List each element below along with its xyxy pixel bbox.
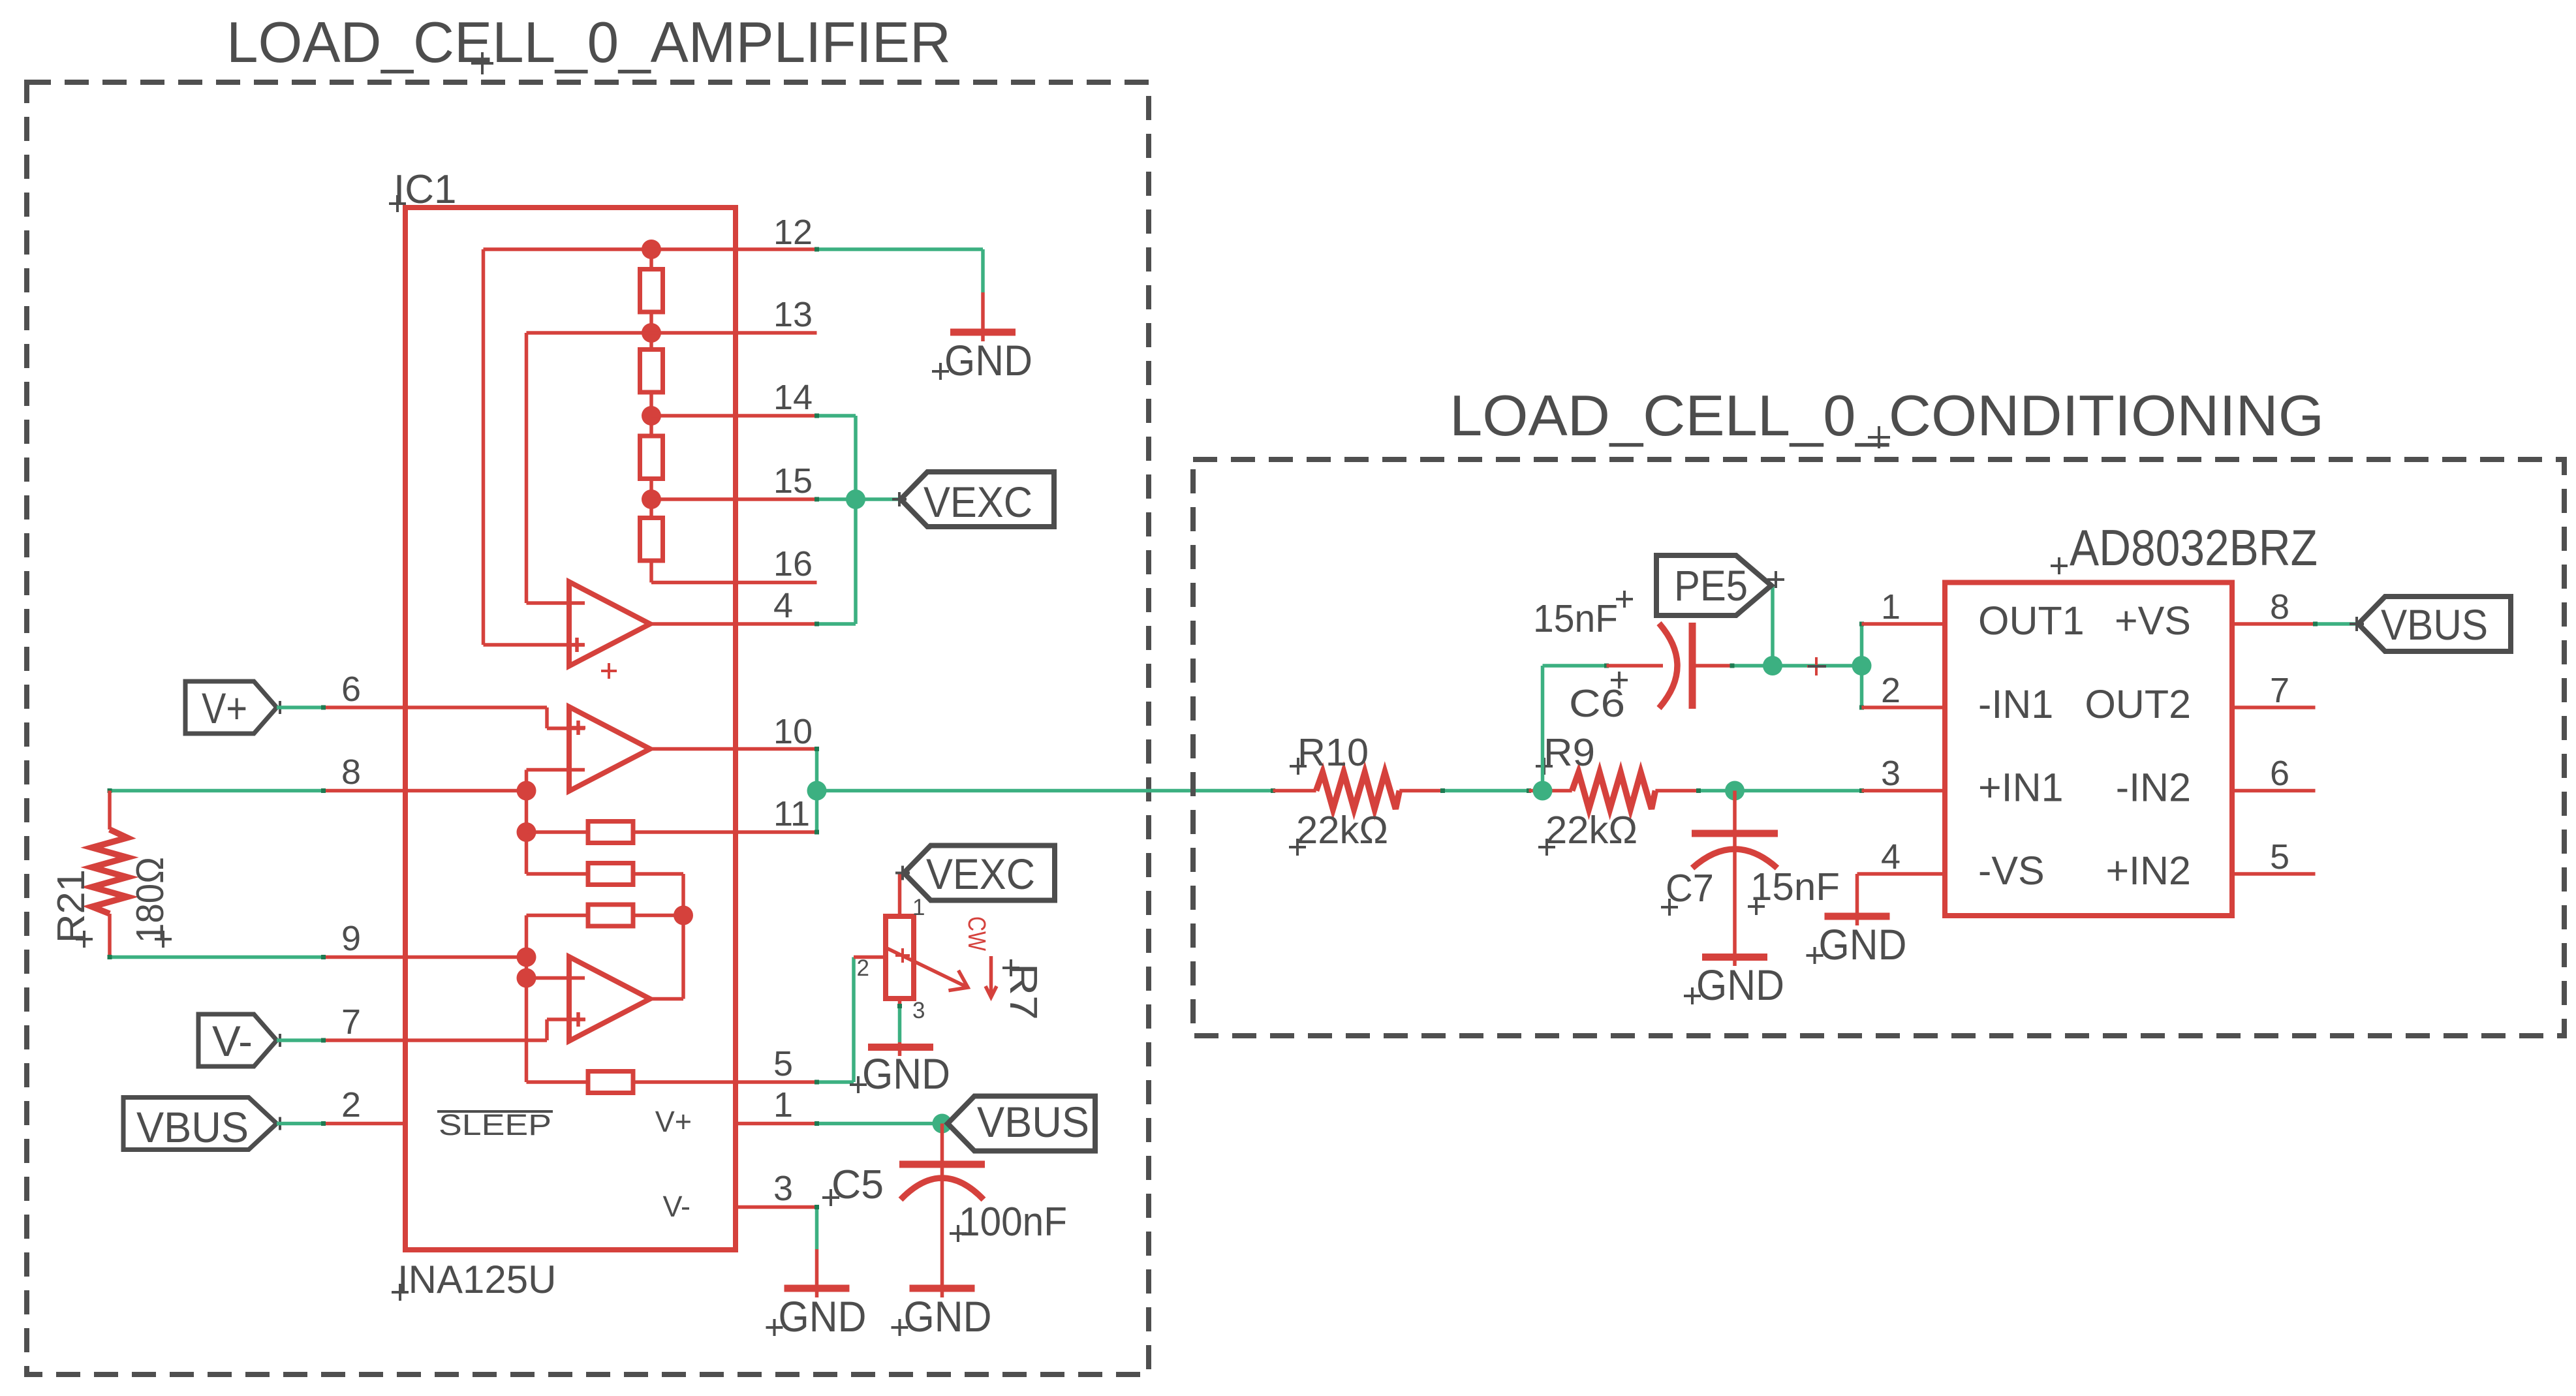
svg-text:AD8032BRZ: AD8032BRZ — [2070, 519, 2318, 576]
resistor R9 22k — [1529, 789, 1572, 793]
pin 12 (IC1) — [484, 247, 817, 251]
svg-text:+IN2: +IN2 — [2105, 848, 2191, 893]
flag V+ — [185, 681, 277, 734]
pin 8 (IC1) — [324, 789, 527, 793]
svg-text:IC1: IC1 — [394, 167, 456, 212]
junction node pin1/pin2 — [1852, 656, 1872, 675]
svg-text:OUT1: OUT1 — [1978, 598, 2085, 643]
wire C6 to PE5/pin1 node — [1732, 664, 1862, 668]
wire R10 to R9 — [1443, 789, 1529, 793]
ground GND (pin 3 net) — [815, 1249, 819, 1288]
svg-text:6: 6 — [2270, 754, 2289, 793]
pin 10 (IC1) — [650, 747, 817, 751]
pin 4 (IC1) — [650, 622, 817, 626]
resistor R21 180R — [108, 791, 112, 830]
svg-text:C6: C6 — [1569, 682, 1625, 725]
ground GND (C5) — [910, 1285, 975, 1292]
svg-text:-IN2: -IN2 — [2116, 766, 2191, 810]
svg-text:C5: C5 — [831, 1162, 884, 1207]
svg-text:R10: R10 — [1297, 731, 1369, 774]
svg-text:GND: GND — [1819, 920, 1907, 969]
svg-text:PE5: PE5 — [1674, 561, 1748, 610]
pin 2 (AD8032) — [1862, 706, 1946, 709]
junction node PE5 — [1763, 656, 1782, 675]
svg-text:7: 7 — [341, 1002, 361, 1042]
pin 3 (AD8032) — [1862, 789, 1946, 793]
pin 8 (AD8032) — [2232, 622, 2316, 626]
flag PE5 — [1771, 585, 1775, 666]
trimmer R7 — [854, 955, 886, 959]
frame LOAD_CELL_0_AMPLIFIER dashed border — [27, 82, 1149, 1374]
svg-text:C7: C7 — [1666, 867, 1714, 910]
junction node VBUS/C5 — [933, 1114, 952, 1134]
svg-text:V-: V- — [212, 1017, 253, 1065]
svg-text:+IN1: +IN1 — [1978, 766, 2064, 810]
svg-text:GND: GND — [862, 1049, 950, 1098]
svg-text:OUT2: OUT2 — [2085, 682, 2191, 726]
svg-text:4: 4 — [1881, 837, 1901, 876]
junction dots on chain — [642, 240, 661, 259]
wire R9 to +IN1 / C7 node — [1699, 789, 1862, 793]
svg-text:11: 11 — [773, 794, 810, 833]
svg-text:VEXC: VEXC — [926, 850, 1035, 898]
ground GND (R7) — [898, 1042, 902, 1047]
wire V+ flag to pin6 — [277, 706, 324, 709]
svg-text:GND: GND — [779, 1292, 867, 1341]
resistor chain R_b (internal, pins 13-14) — [640, 350, 663, 393]
resistor internal feedback R1 row / pin 11 — [527, 830, 589, 834]
pin 6 (IC1) — [324, 706, 406, 709]
junction node C7 — [1725, 781, 1745, 801]
resistor chain R_a (internal, pins 12-13) — [649, 249, 653, 270]
svg-text:4: 4 — [773, 586, 793, 625]
flag VBUS (right) — [2359, 597, 2511, 651]
resistor internal R4 / pin 5 — [527, 1080, 589, 1084]
wire pin5 to R7 wiper — [817, 1080, 854, 1084]
wire pin7 to op3 + input — [405, 1038, 547, 1042]
svg-text:V+: V+ — [202, 684, 247, 732]
svg-text:V-: V- — [662, 1190, 691, 1223]
svg-text:V+: V+ — [655, 1105, 692, 1138]
junction node R10/R9 — [1533, 781, 1553, 801]
wire R7 pin3 to GND — [898, 1006, 902, 1043]
svg-text:VEXC: VEXC — [923, 478, 1032, 526]
op-amp U1 AD8032BRZ body — [1945, 583, 2232, 916]
pin 4 (AD8032) — [1857, 872, 1946, 876]
resistor chain R_d (internal, pins 15-16) — [640, 518, 663, 561]
resistor chain R_c (internal, pins 14-15) — [640, 436, 663, 479]
svg-text:22kΩ: 22kΩ — [1545, 809, 1637, 852]
svg-text:1: 1 — [1881, 587, 1901, 627]
svg-text:1: 1 — [912, 895, 925, 920]
svg-text:INA125U: INA125U — [397, 1258, 556, 1301]
svg-text:13: 13 — [773, 295, 813, 334]
op-amp 3 (input amp B) — [527, 976, 585, 980]
svg-text:15: 15 — [773, 461, 813, 501]
wire VBUS flag to pin2 — [277, 1122, 324, 1126]
flag VBUS (middle) — [948, 1096, 1095, 1151]
wire pin8 to VBUS flag — [2316, 622, 2359, 626]
resistor internal R3 — [527, 914, 589, 918]
wire pin10/pin11 to output net — [815, 749, 819, 833]
wire V- flag to pin7 — [277, 1038, 324, 1042]
svg-text:16: 16 — [773, 544, 813, 583]
pin 14 (IC1) — [651, 414, 817, 418]
svg-text:3: 3 — [912, 998, 925, 1023]
svg-text:R7: R7 — [1002, 963, 1045, 1020]
wire pin6 to op2 + input — [405, 706, 547, 709]
pin 1 (AD8032) — [1862, 622, 1946, 626]
wire C6 branch — [1541, 666, 1545, 791]
flag VEXC — [901, 472, 1054, 527]
svg-text:10: 10 — [773, 712, 813, 751]
svg-text:3: 3 — [773, 1169, 793, 1208]
svg-text:6: 6 — [341, 670, 361, 709]
svg-text:2: 2 — [1881, 671, 1901, 710]
svg-text:R9: R9 — [1544, 731, 1595, 774]
svg-text:GND: GND — [904, 1292, 992, 1341]
svg-text:180Ω: 180Ω — [129, 857, 172, 943]
svg-text:VBUS: VBUS — [977, 1098, 1089, 1146]
svg-text:CW: CW — [963, 916, 990, 951]
svg-text:VBUS: VBUS — [2381, 600, 2488, 649]
ground GND (AD8032 pin4) — [1825, 913, 1890, 920]
svg-text:2: 2 — [857, 955, 869, 981]
svg-text:SLEEP: SLEEP — [439, 1108, 551, 1141]
svg-text:VBUS: VBUS — [136, 1103, 249, 1151]
svg-text:GND: GND — [1696, 961, 1784, 1009]
pin 5 (AD8032) — [2232, 872, 2316, 876]
flag VBUS (left) — [123, 1098, 277, 1150]
R7 wiper arrow — [886, 948, 968, 991]
svg-text:3: 3 — [1881, 754, 1901, 793]
wire pin12 to GND — [817, 247, 984, 251]
op-amp 1 (internal ref amp) — [569, 582, 650, 666]
ground GND (pin 12 net) — [981, 292, 985, 332]
resistor R10 22k — [1273, 789, 1316, 793]
op-amp IC1 body (INA125U) — [405, 208, 736, 1250]
pin 3 V- (IC1) — [736, 1205, 817, 1209]
frame LOAD_CELL_0_CONDITIONING dashed border — [1193, 459, 2564, 1036]
svg-text:-VS: -VS — [1978, 848, 2045, 893]
svg-text:22kΩ: 22kΩ — [1296, 809, 1388, 852]
svg-text:12: 12 — [773, 213, 813, 252]
capacitor C5 100nF — [940, 1124, 944, 1165]
pin 7 (AD8032) — [2232, 706, 2316, 709]
pin 1 V+ (IC1) — [736, 1122, 817, 1126]
svg-text:7: 7 — [2270, 671, 2289, 710]
svg-text:8: 8 — [341, 752, 361, 792]
wire op2 - input — [527, 768, 585, 772]
wire pin8 to R21 top — [110, 789, 324, 793]
ground GND (C7) — [1702, 954, 1767, 961]
svg-text:100nF: 100nF — [959, 1200, 1067, 1245]
svg-text:2: 2 — [341, 1085, 361, 1125]
flag VEXC (R7 top) — [904, 846, 1055, 901]
svg-text:GND: GND — [944, 336, 1032, 384]
svg-text:8: 8 — [2270, 587, 2289, 627]
svg-text:R21: R21 — [50, 869, 93, 943]
svg-text:5: 5 — [2270, 837, 2289, 876]
svg-text:LOAD_CELL_0_AMPLIFIER: LOAD_CELL_0_AMPLIFIER — [226, 10, 951, 74]
wire pin4 to GND — [1855, 874, 1859, 916]
junction node output — [807, 781, 827, 801]
pin 16 (IC1) — [651, 581, 817, 585]
wire pin1 to VBUS node — [817, 1122, 948, 1126]
capacitor C7 15nF — [1733, 791, 1737, 830]
wire pin14/15/4 VEXC net — [817, 414, 856, 418]
svg-text:14: 14 — [773, 378, 813, 417]
capacitor C6 15nF — [1607, 664, 1664, 668]
wire pin3 to GND — [815, 1207, 819, 1250]
pin 6 (AD8032) — [2232, 789, 2316, 793]
wire op1 feedback verticals — [482, 249, 486, 645]
svg-text:1: 1 — [773, 1085, 793, 1125]
CW arrow (red) — [989, 956, 993, 995]
wire output net to R10 — [817, 789, 1273, 793]
op-amp 2 (input amp A) — [569, 707, 650, 791]
svg-text:15nF: 15nF — [1750, 865, 1840, 908]
pin 9 (IC1) — [324, 955, 527, 959]
wire to AD8032 pins 1,2 — [1860, 624, 1864, 707]
flag V- — [198, 1014, 277, 1066]
svg-text:-IN1: -IN1 — [1978, 682, 2053, 726]
pin 2 SLEEP (IC1) — [324, 1122, 406, 1126]
pin 13 (IC1) — [527, 331, 817, 335]
svg-text:5: 5 — [773, 1044, 793, 1083]
pin 7 (IC1) — [324, 1038, 406, 1042]
resistor internal R2 — [527, 872, 589, 876]
svg-text:15nF: 15nF — [1533, 597, 1618, 640]
pin 15 (IC1) — [651, 497, 817, 501]
svg-text:+VS: +VS — [2115, 598, 2191, 643]
wire R21 bottom to pin9 — [110, 955, 324, 959]
junction node VEXC — [846, 489, 865, 509]
svg-text:9: 9 — [341, 919, 361, 958]
wire op3 output feedback vertical — [681, 874, 685, 999]
